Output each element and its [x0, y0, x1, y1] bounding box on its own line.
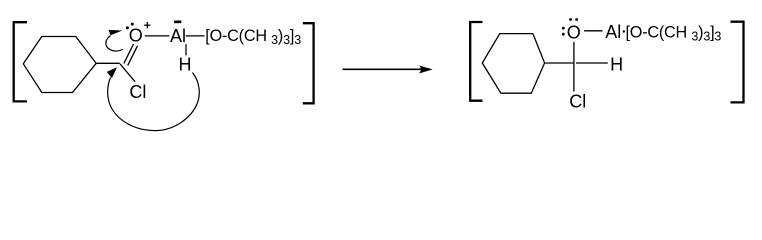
reaction arrow — [343, 66, 433, 74]
wire: ring to CH carbon bond (product) — [545, 62, 574, 64]
wire: ring to carbonyl carbon bond — [96, 62, 120, 64]
C=O double bond line 2 — [128, 46, 138, 66]
right bracket of product complex — [731, 22, 744, 103]
C=O double bond line 1 — [124, 44, 134, 64]
C-Cl bond (product) — [573, 63, 575, 92]
svg-text:Al: Al — [170, 26, 186, 46]
big curved arrow head — [107, 67, 117, 78]
svg-text:H: H — [610, 55, 623, 75]
svg-text:H: H — [179, 55, 192, 75]
cyclohexane ring (reactant) — [23, 37, 96, 93]
Al-[O-C(CH3)3]3 bond — [186, 35, 205, 37]
Al-H bond — [185, 44, 187, 55]
svg-text:O: O — [567, 22, 581, 42]
O-Al bond (reactant) — [145, 35, 170, 37]
plus charge on O — [144, 22, 150, 28]
svg-text:O: O — [129, 25, 143, 45]
C-Cl bond (reactant) — [120, 64, 135, 82]
C-H bond (product) — [576, 62, 608, 64]
svg-text:Cl: Cl — [569, 92, 586, 112]
right bracket of reactant complex — [303, 23, 314, 103]
small curved arrow tail — [106, 36, 123, 52]
lone pair dots on O+ — [126, 26, 129, 29]
left bracket of product complex — [470, 22, 482, 101]
C-O bond (product) — [573, 42, 575, 63]
big curved arrow tail (hydride attack on carbonyl carbon) — [108, 73, 200, 131]
lone pair dots left of O (product) — [562, 27, 565, 30]
svg-text:Cl: Cl — [129, 82, 146, 102]
dot between Al and ligand — [623, 30, 625, 32]
minus charge on Al — [174, 21, 181, 24]
left bracket of reactant complex — [14, 22, 27, 101]
cyclohexane ring (product) — [482, 34, 544, 94]
svg-text:Al: Al — [605, 22, 621, 42]
O-Al bond (product) — [584, 30, 602, 32]
small curved arrow head (pi electrons to O) — [109, 30, 123, 35]
lone pair dots above O (product) — [569, 18, 572, 21]
